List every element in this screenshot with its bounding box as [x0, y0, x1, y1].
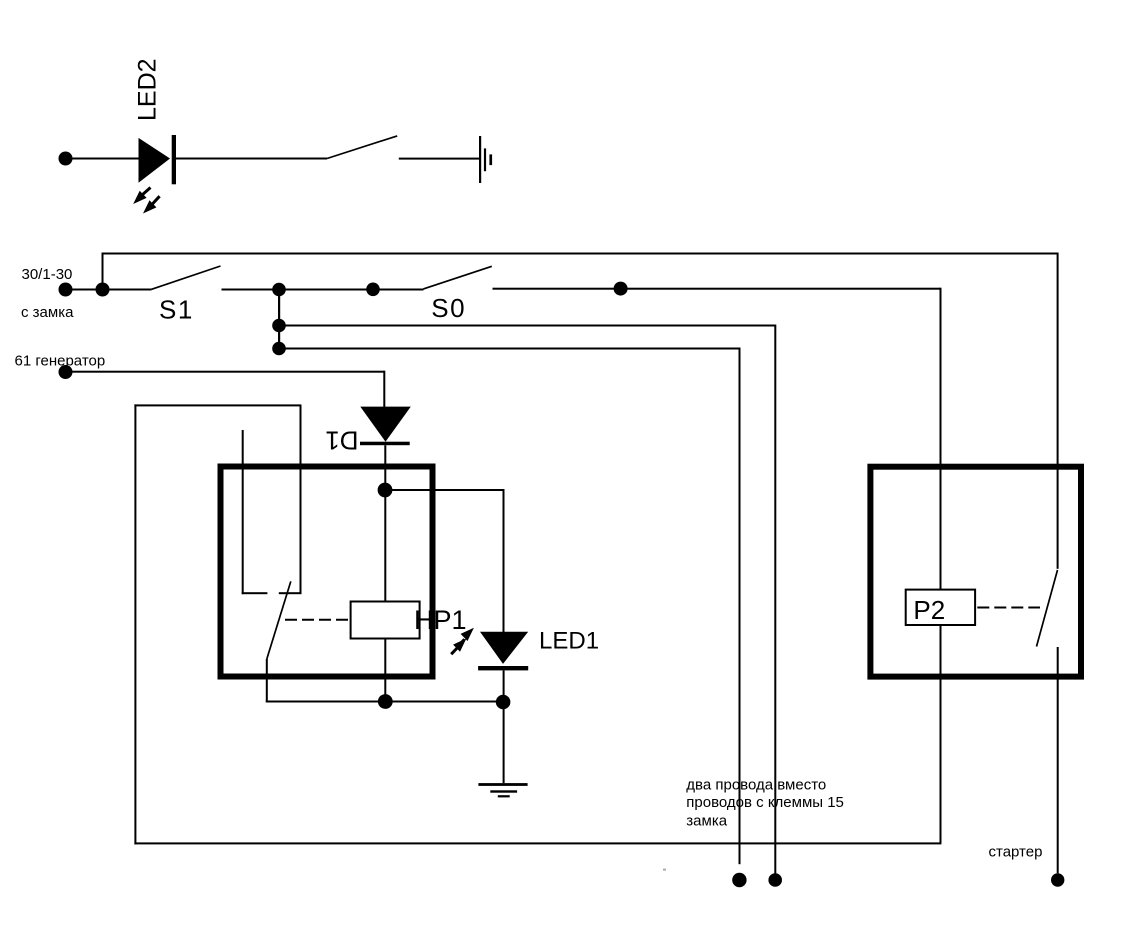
svg-text:LED1: LED1: [539, 627, 599, 654]
dashed link (P2 actuator): [977, 607, 1040, 609]
wire: dot to S0 pivot: [373, 289, 424, 291]
switch contact prong (from enclosure): [279, 405, 302, 594]
svg-text:два провода вместо: два провода вместо: [686, 776, 826, 793]
wire: top bus: [102, 253, 1059, 255]
svg-text:замка: замка: [686, 813, 727, 830]
terminal dot (клемма 15 a): [732, 873, 746, 887]
junction dot (bus A): [96, 283, 110, 297]
wire: riser to top bus: [102, 253, 104, 291]
terminal dot (LED2 anode): [59, 152, 73, 166]
LED D (LED1): [478, 632, 528, 671]
wire: blade to bottom link: [266, 659, 268, 702]
wire: switch to ground: [399, 158, 480, 160]
svg-text:проводов с клеммы 15: проводов с клеммы 15: [686, 794, 844, 811]
junction dot (node B): [272, 283, 286, 297]
junction dot (coil bottom node): [378, 694, 393, 709]
wire: starter lead: [1057, 647, 1059, 873]
wire: right drop through P2: [940, 288, 942, 844]
svg-text:D1: D1: [325, 426, 358, 456]
svg-text:61 генератор: 61 генератор: [15, 353, 106, 370]
switch contact blade (P2): [1037, 570, 1058, 647]
diode D1: [360, 407, 411, 446]
svg-text:S0: S0: [431, 293, 466, 323]
LED D2 (LED2): [139, 135, 177, 184]
junction dot (S0 right): [614, 282, 628, 296]
junction dot (tap 2): [272, 342, 286, 356]
junction dot (D1 cathode node): [378, 483, 393, 498]
wire: node B down tap: [278, 290, 280, 349]
wire: coil to bottom node: [384, 640, 386, 703]
wire: top bus drop to P2 contact: [1057, 253, 1059, 569]
wire: LED2 anode lead: [66, 158, 140, 160]
terminal dot (стартер): [1051, 873, 1064, 886]
wire: tap1 drop: [774, 325, 776, 875]
svg-text:P2: P2: [913, 595, 945, 625]
terminal dot (61 генератор): [59, 365, 73, 379]
switch blade (lamp test switch): [327, 136, 397, 159]
LED2 light arrows: [133, 188, 159, 214]
svg-text:S1: S1: [159, 294, 194, 324]
relay HP1 coil: [351, 602, 420, 639]
wire: D1 node to LED1 anode: [385, 489, 503, 491]
wire: S1 to node B: [222, 289, 280, 291]
terminal dot (клемма 15 b): [768, 873, 782, 887]
svg-text:стартер: стартер: [989, 844, 1043, 861]
wire: node B to S0: [279, 289, 374, 291]
relay P2 coil: [906, 590, 975, 625]
wire: tap2 drop: [739, 348, 741, 865]
junction dot (S0 left): [366, 283, 380, 297]
wire: LED1 cathode: [503, 670, 505, 702]
speck: [663, 869, 666, 871]
thin enclosure (sensor box): [134, 404, 941, 844]
wire: drop to D1 anode: [383, 371, 385, 408]
terminal dot (30/1-30): [59, 283, 73, 297]
ground (LED1): [478, 783, 527, 797]
relay contact blade (HP1): [267, 581, 291, 659]
svg-text:30/1-30: 30/1-30: [22, 266, 73, 283]
wire: LED1 node to ground: [503, 702, 505, 783]
wire: bottom link: [266, 701, 504, 703]
switch contact stub: [242, 430, 268, 594]
wire: junction to S1: [103, 289, 152, 291]
LED1 light arrows: [451, 628, 474, 655]
wire: terminal to junction: [66, 289, 103, 291]
wire: tap1 to right: [279, 325, 776, 327]
junction dot (tap 1): [272, 319, 286, 333]
wire: D1 cathode to coil: [384, 445, 386, 601]
switch S0 blade: [423, 266, 491, 289]
junction dot (LED1 cathode node): [496, 695, 511, 710]
svg-text:HP1: HP1: [414, 605, 467, 635]
wire: 61 генератор bus: [66, 371, 385, 373]
svg-text:LED2: LED2: [133, 58, 161, 121]
svg-text:с замка: с замка: [21, 304, 74, 321]
wire: tap2 to right: [279, 348, 740, 350]
ground (row 1, rotated): [479, 136, 492, 183]
dashed link (HP1 actuator): [285, 619, 350, 621]
switch S1 blade: [152, 266, 221, 289]
relay box HP1 (thick): [221, 467, 433, 677]
wire: LED2 cathode to switch: [176, 158, 327, 160]
wire: LED1 anode drop: [503, 489, 505, 632]
wire: S0 to right drop: [493, 288, 941, 290]
relay box P2 (thick): [870, 467, 1081, 677]
